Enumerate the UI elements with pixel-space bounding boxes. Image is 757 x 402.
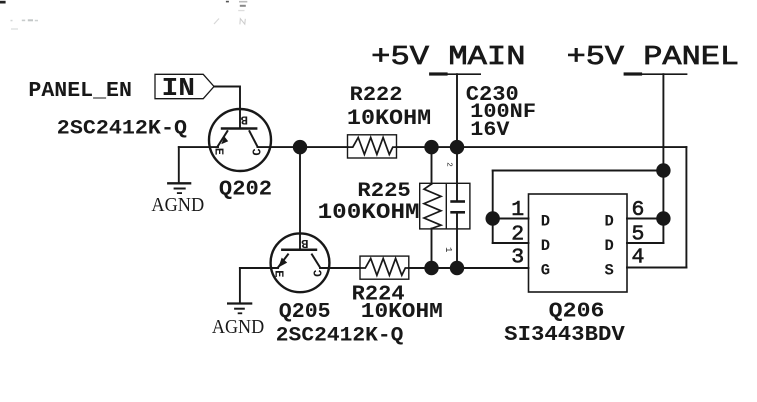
svg-text:IN: IN [162,73,196,103]
svg-text:D: D [541,237,550,255]
svg-text:2: 2 [445,162,453,167]
svg-text:D: D [541,213,550,231]
svg-text:SI3443BDV: SI3443BDV [504,323,625,347]
svg-text:2: 2 [511,222,524,246]
svg-text:PANEL_EN: PANEL_EN [28,79,131,103]
svg-text:10KOHM: 10KOHM [361,300,443,324]
svg-text:Q205: Q205 [279,300,331,324]
svg-text:D: D [605,237,614,255]
svg-text:AGND: AGND [212,316,264,338]
svg-text:6: 6 [632,198,645,222]
svg-text:S: S [605,261,614,279]
svg-text:D: D [605,213,614,231]
svg-text:Q202: Q202 [219,178,272,202]
svg-text:R222: R222 [350,84,403,107]
svg-text:10KOHM: 10KOHM [347,106,431,131]
svg-text:1: 1 [511,198,524,222]
svg-text:B: B [301,236,308,250]
svg-text:E: E [211,148,225,155]
svg-text:B: B [241,113,248,127]
svg-text:3: 3 [511,246,524,270]
svg-text:C: C [311,270,325,277]
svg-text:2SC2412K-Q: 2SC2412K-Q [276,325,404,348]
svg-text:G: G [541,261,550,279]
svg-text:E: E [271,270,285,277]
svg-text:2SC2412K-Q: 2SC2412K-Q [57,118,187,141]
svg-text:C: C [250,148,264,155]
svg-text:1: 1 [443,247,453,252]
svg-text:+5V PANEL: +5V PANEL [567,43,740,73]
svg-text:5: 5 [632,222,645,246]
svg-text:100KOHM: 100KOHM [318,200,420,225]
svg-text:Q206: Q206 [549,300,605,324]
svg-text:+5V MAIN: +5V MAIN [371,43,525,73]
svg-text:16V: 16V [470,119,510,142]
svg-text:AGND: AGND [151,194,204,216]
svg-text:4: 4 [632,246,645,270]
